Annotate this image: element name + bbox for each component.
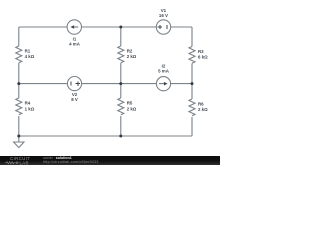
svg-text:8 V: 8 V [71, 97, 78, 102]
wire top horizontal [19, 26, 192, 28]
svg-text:R3: R3 [198, 49, 204, 54]
resistor R1 [16, 46, 35, 63]
voltage source V1 [156, 8, 170, 34]
wire left vertical segments [18, 27, 20, 136]
node junction bottom middle [119, 135, 122, 138]
svg-text:4 kΩ: 4 kΩ [25, 54, 35, 59]
svg-text:R2: R2 [127, 49, 133, 54]
wire middle horizontal [19, 83, 192, 85]
resistor R4 [16, 98, 35, 115]
resistor R5 [118, 98, 137, 115]
resistor R3 [189, 47, 208, 64]
node junction mid left [17, 82, 20, 85]
voltage source V2 [67, 77, 81, 102]
watermark text line 1 [43, 156, 72, 160]
svg-text:1 kΩ: 1 kΩ [25, 106, 35, 111]
watermark text line 2 [43, 160, 98, 164]
ground [14, 136, 24, 148]
node junction top middle [119, 26, 122, 29]
wire right vertical segments [191, 27, 193, 136]
svg-text:R1: R1 [25, 49, 31, 54]
svg-text:16 V: 16 V [159, 13, 168, 18]
resistor R2 [118, 46, 137, 63]
CircuitLab logo [4, 156, 38, 166]
svg-text:I2: I2 [162, 63, 166, 68]
svg-text:6 kΩ: 6 kΩ [198, 55, 208, 60]
svg-text:5 mA: 5 mA [158, 69, 170, 74]
svg-text:2 kΩ: 2 kΩ [198, 107, 208, 112]
node junction mid right [191, 82, 194, 85]
current source I1 [67, 20, 81, 47]
svg-text:4 mA: 4 mA [69, 42, 81, 47]
node junction bottom left [17, 135, 20, 138]
node junction mid middle [119, 82, 122, 85]
watermark bar [0, 156, 220, 166]
wire middle vertical segments [120, 27, 122, 136]
svg-text:R5: R5 [127, 101, 133, 106]
current source I2 [156, 63, 170, 90]
svg-text:R4: R4 [25, 101, 31, 106]
svg-text:2 kΩ: 2 kΩ [127, 54, 137, 59]
resistor R6 [189, 99, 208, 116]
svg-text:R6: R6 [198, 102, 204, 107]
svg-text:LAB: LAB [20, 160, 29, 165]
wire bottom horizontal [19, 135, 192, 137]
svg-text:2 kΩ: 2 kΩ [127, 106, 137, 111]
